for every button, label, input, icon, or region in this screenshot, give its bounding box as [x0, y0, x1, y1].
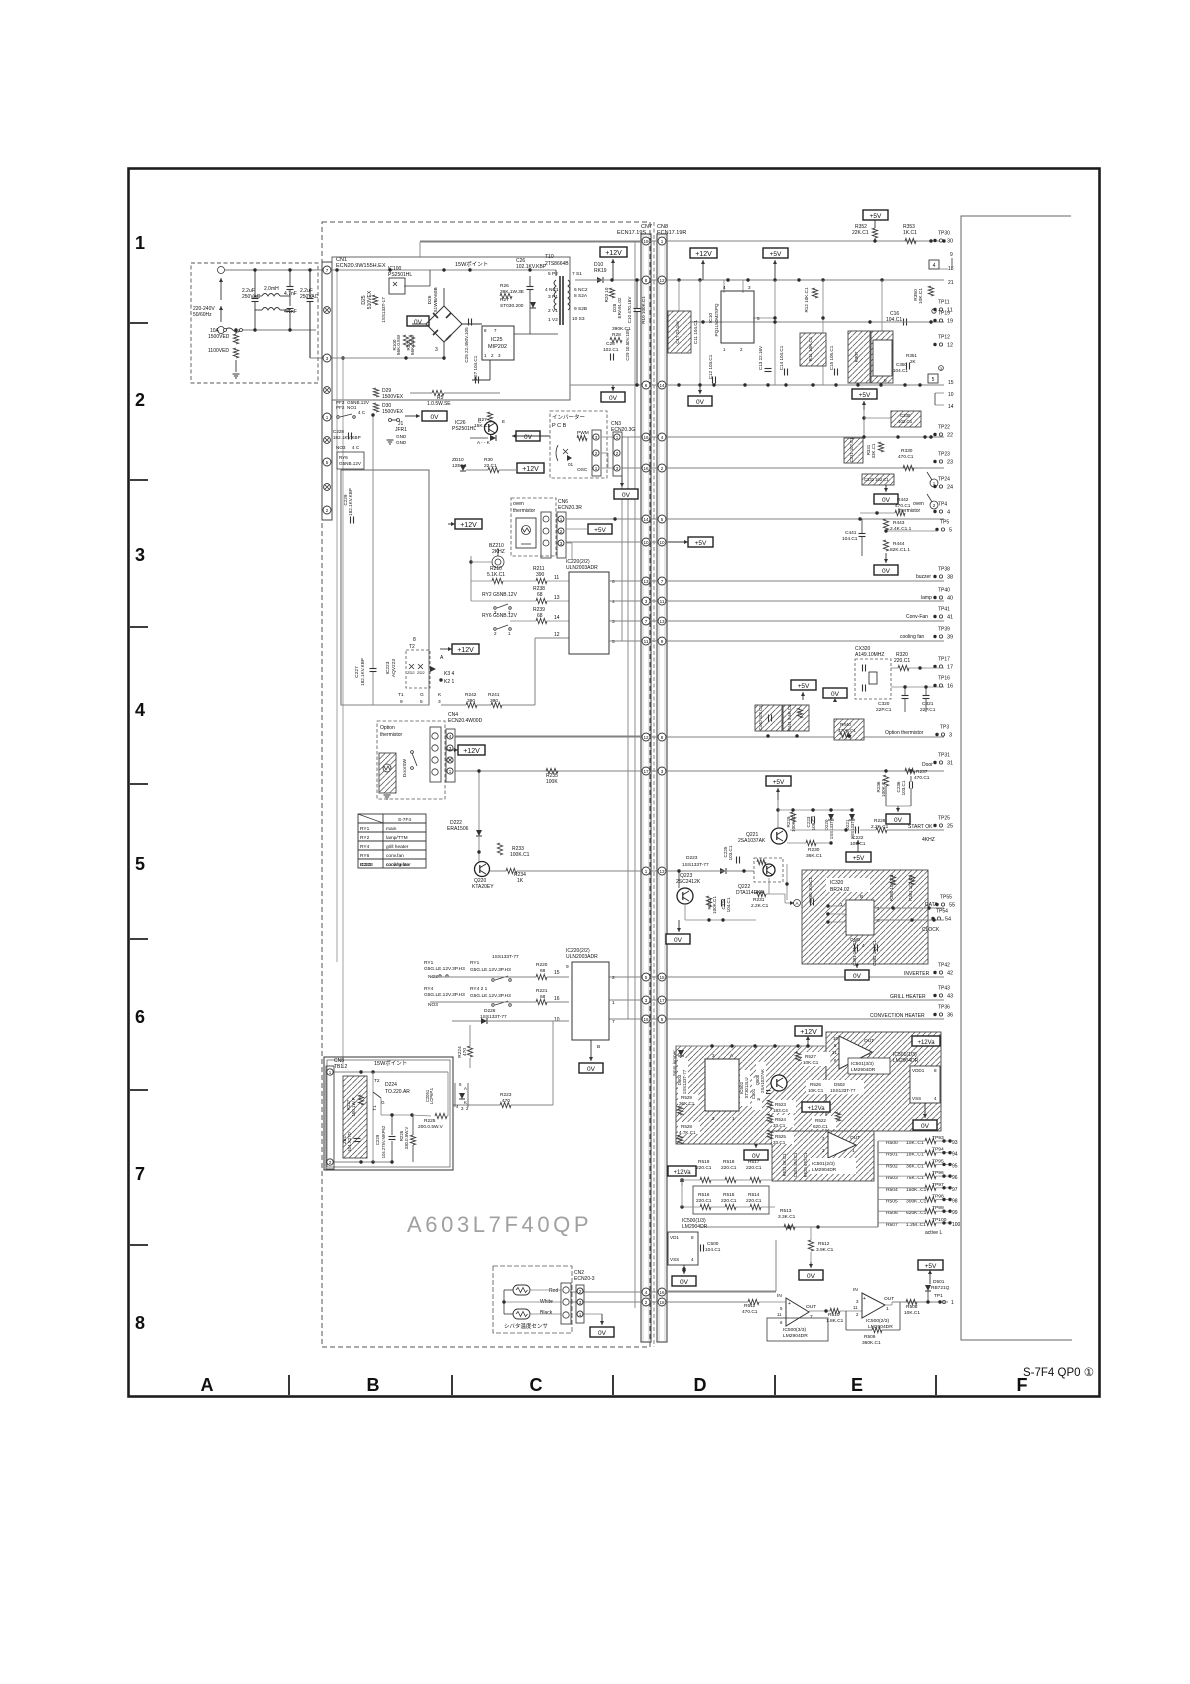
CN1 pin 7: [323, 266, 331, 274]
svg-text:7: 7: [494, 328, 497, 333]
resistor inverter pwm: [577, 435, 587, 440]
svg-text:7 S1: 7 S1: [572, 271, 582, 277]
svg-text:Conv-Fan: Conv-Fan: [906, 614, 928, 620]
wire +12Va vertical r519: [681, 1178, 683, 1207]
wire cn6 pin1 bus: [566, 518, 641, 520]
svg-text:+5V: +5V: [870, 213, 882, 220]
svg-text:3: 3: [856, 1299, 859, 1304]
svg-text:R512: R512: [818, 1241, 830, 1247]
svg-text:17: 17: [947, 665, 953, 671]
resistor R527 10K.C1: [802, 1052, 830, 1066]
svg-text:470.C1: 470.C1: [898, 454, 914, 460]
wire bus y=621: [609, 620, 944, 622]
resistor R522 620.C1: [812, 1116, 836, 1129]
svg-text:+12Va: +12Va: [673, 1170, 691, 1176]
svg-text:TP95: TP95: [932, 1158, 944, 1164]
svg-text:R520 470.C1: R520 470.C1: [803, 1152, 808, 1177]
CN7 pin 4: [642, 1288, 650, 1296]
svg-text:B: B: [367, 1375, 380, 1395]
svg-text:14: 14: [554, 615, 560, 621]
svg-text:R237: R237: [916, 769, 928, 775]
svg-text:R517: R517: [748, 1159, 760, 1165]
svg-text:0V: 0V: [414, 319, 423, 326]
svg-text:LM2904DR: LM2904DR: [812, 1167, 837, 1173]
svg-text:LM2904DR: LM2904DR: [851, 1067, 876, 1073]
svg-text:470: 470: [462, 1048, 468, 1056]
svg-text:TP31: TP31: [938, 753, 950, 759]
main PCB dashed outline: [322, 222, 650, 1347]
svg-text:R513: R513: [780, 1208, 792, 1214]
svg-text:Black: Black: [540, 1310, 553, 1316]
resistor R441 hatched 5.6K.C1: [783, 705, 809, 731]
svg-text:R440: R440: [840, 722, 851, 727]
wire r509 feedback: [845, 1311, 847, 1330]
svg-text:C: C: [530, 1375, 543, 1395]
wire option sense vertical: [478, 771, 480, 830]
wire d226 row: [452, 1020, 481, 1022]
svg-text:100K: 100K: [546, 779, 558, 785]
svg-text:2TS8664B: 2TS8664B: [545, 261, 569, 267]
CN1 pin nc1: [324, 307, 331, 314]
svg-text:11: 11: [853, 1305, 858, 1310]
svg-text:220.C1: 220.C1: [746, 1198, 762, 1204]
svg-text:6: 6: [645, 383, 648, 388]
analog hatched block left: [676, 1046, 826, 1144]
CN8 pin 13: [658, 867, 666, 875]
svg-text:R225: R225: [424, 1118, 436, 1124]
svg-text:10: 10: [659, 540, 665, 545]
svg-text:IC501(2/3): IC501(2/3): [812, 1161, 835, 1167]
svg-text:R10 100K.C1: R10 100K.C1: [641, 296, 646, 324]
wire row 322: [668, 321, 944, 323]
svg-text:2: 2: [612, 975, 615, 981]
svg-text:0V: 0V: [894, 817, 903, 824]
CN1 pin 5: [323, 458, 331, 466]
svg-text:Option thermistor: Option thermistor: [885, 730, 924, 736]
boxed label +12V cn6: [455, 519, 482, 529]
svg-text:4: 4: [933, 263, 936, 269]
svg-text:1500VEX: 1500VEX: [382, 409, 404, 415]
svg-text:oven: oven: [913, 501, 924, 507]
svg-text:1: 1: [951, 1300, 954, 1306]
svg-text:C320: C320: [878, 701, 890, 707]
CN7 pin 3: [642, 996, 650, 1004]
boxed label +12V smps: [600, 247, 627, 257]
wire q221 collector: [777, 800, 779, 827]
svg-text:1: 1: [732, 1116, 735, 1121]
svg-text:+5V: +5V: [773, 779, 785, 786]
wire row771 dots: [884, 769, 887, 772]
IC500 VDD VSS box: [668, 1232, 698, 1265]
CN8 pin 11: [658, 597, 666, 605]
svg-text:5 P2: 5 P2: [548, 271, 558, 277]
svg-text:1: 1: [560, 517, 563, 522]
svg-text:R523: R523: [775, 1102, 786, 1107]
svg-text:K3 4: K3 4: [444, 671, 455, 677]
svg-text:OUT: OUT: [850, 1135, 860, 1141]
wire ry2 row: [471, 600, 536, 602]
boxed label +5V q221: [766, 776, 791, 786]
svg-text:1500VEX: 1500VEX: [382, 394, 404, 400]
svg-text:R27: R27: [500, 297, 509, 303]
CN8 pin 1: [658, 237, 666, 245]
wire analog top rail: [676, 1045, 826, 1047]
svg-text:15: 15: [659, 975, 665, 980]
wire sensor black: [530, 1313, 561, 1315]
svg-text:+5V: +5V: [798, 683, 810, 690]
svg-text:lamp/TTM: lamp/TTM: [386, 835, 408, 841]
wire cn3 pin3: [601, 467, 613, 469]
svg-text:ZD2: ZD2: [407, 670, 415, 675]
svg-text:IC500(3/3): IC500(3/3): [783, 1327, 806, 1333]
svg-text:A: A: [201, 1375, 214, 1395]
svg-text:98: 98: [952, 1199, 958, 1205]
svg-text:C15 105.C1: C15 105.C1: [829, 345, 834, 370]
svg-text:oven: oven: [513, 501, 524, 507]
svg-text:RY1: RY1: [360, 826, 370, 832]
CN7 pin 1: [642, 867, 650, 875]
opamp IC501(3/3) triangle: [839, 1036, 872, 1069]
svg-text:5: 5: [877, 906, 880, 911]
svg-text:2: 2: [712, 1116, 715, 1121]
svg-text:4: 4: [612, 599, 615, 605]
svg-text:13: 13: [643, 579, 649, 584]
svg-text:2: 2: [579, 1289, 582, 1294]
svg-text:1: 1: [852, 1148, 855, 1154]
wire bus y=601: [609, 600, 944, 602]
svg-text:TP40: TP40: [938, 588, 950, 594]
svg-text:R514: R514: [748, 1192, 760, 1198]
svg-text:G: G: [420, 692, 424, 698]
CN7 pin 8: [642, 276, 650, 284]
wire data row: [874, 907, 944, 909]
svg-text:21: 21: [832, 1050, 837, 1055]
svg-text:100K.C1: 100K.C1: [881, 779, 886, 797]
CN1 pin nc2: [324, 387, 331, 394]
relay function table: [358, 814, 426, 868]
svg-text:5: 5: [661, 1017, 664, 1022]
svg-text:1: 1: [484, 353, 487, 358]
boxed label 0V ic220 lower: [579, 1063, 603, 1073]
svg-text:1: 1: [326, 415, 329, 420]
CN7 pin 14: [642, 515, 650, 523]
wire sensor commons: [504, 1289, 513, 1291]
svg-text:1: 1: [612, 1000, 615, 1006]
svg-text:OUT: OUT: [806, 1304, 816, 1310]
connector CN4 pins: [446, 729, 455, 782]
svg-text:1: 1: [508, 631, 511, 636]
IC25 MIP202: [482, 326, 514, 360]
svg-text:7: 7: [810, 1314, 813, 1320]
svg-text:R11 10K.C1: R11 10K.C1: [808, 336, 813, 361]
svg-text:TP43: TP43: [938, 986, 950, 992]
film capacitor hatched Z81: [343, 1076, 367, 1158]
wire ic320 vdd feed: [786, 864, 788, 900]
CN1 pin 1: [323, 413, 331, 421]
svg-text:31: 31: [947, 761, 953, 767]
wire q220 base bus: [490, 870, 506, 872]
wire C227 vertical: [372, 415, 374, 668]
svg-text:24: 24: [947, 485, 953, 491]
svg-text:TP96: TP96: [932, 1170, 944, 1176]
svg-text:39K.1W.3E: 39K.1W.3E: [500, 289, 524, 295]
svg-text:15: 15: [948, 380, 954, 386]
svg-text:1SS133T-77: 1SS133T-77: [682, 1069, 687, 1094]
svg-text:G5G.LE.12V.3P.H3: G5G.LE.12V.3P.H3: [470, 993, 511, 999]
svg-text:A603L7F40QP: A603L7F40QP: [407, 1212, 592, 1237]
IC500(3/3) label: [767, 1318, 828, 1341]
svg-text:1500VED: 1500VED: [208, 334, 230, 340]
svg-text:C12 103.C1: C12 103.C1: [708, 354, 713, 379]
svg-text:82K.C1.1: 82K.C1.1: [890, 547, 910, 553]
transistor Q221 2SA1037AK: [771, 828, 787, 844]
wire mains live rail: [332, 269, 556, 271]
svg-text:9: 9: [884, 378, 887, 383]
CN8 pin 15: [658, 973, 666, 981]
svg-text:470.C1: 470.C1: [914, 775, 930, 781]
svg-text:2: 2: [491, 353, 494, 358]
svg-text:R509: R509: [864, 1334, 876, 1340]
svg-text:4.7K.C1: 4.7K.C1: [679, 1130, 696, 1135]
svg-text:active L: active L: [925, 1230, 942, 1236]
wire row 385 dots: [677, 383, 680, 386]
svg-text:ZD2: ZD2: [417, 670, 425, 675]
svg-text:470: 470: [502, 1098, 510, 1104]
IC320 inner box: [846, 900, 874, 935]
svg-text:IC501(3/3): IC501(3/3): [851, 1061, 874, 1067]
wire ic25 bottom: [489, 360, 491, 380]
svg-text:1SS133T-77: 1SS133T-77: [480, 1014, 507, 1020]
svg-text:B: B: [860, 894, 863, 900]
svg-text:RY1: RY1: [424, 960, 434, 966]
svg-text:R30: R30: [484, 457, 493, 463]
svg-text:LM2904DR: LM2904DR: [783, 1333, 808, 1339]
svg-text:+12V: +12V: [522, 466, 539, 473]
svg-text:R521 1K.C1: R521 1K.C1: [782, 1153, 787, 1176]
svg-text:3: 3: [498, 353, 501, 358]
svg-text:7: 7: [612, 1019, 615, 1025]
svg-text:R528: R528: [681, 1124, 692, 1129]
svg-text:0V: 0V: [882, 497, 891, 504]
connector CN8 strip body: [657, 234, 667, 1342]
boxed label +5V cn6: [588, 524, 612, 534]
svg-text:1 V2: 1 V2: [548, 317, 558, 323]
svg-text:68: 68: [540, 968, 546, 974]
svg-text:4: 4: [135, 700, 145, 720]
CN8 pin 2: [658, 464, 666, 472]
svg-text:38: 38: [947, 575, 953, 581]
svg-text:T2: T2: [374, 1078, 380, 1084]
svg-text:2: 2: [616, 451, 619, 456]
svg-text:182.1KV.KBP: 182.1KV.KBP: [360, 658, 365, 686]
svg-text:5.1K.C1: 5.1K.C1: [487, 572, 505, 578]
wire opto link: [404, 285, 430, 287]
svg-text:182.1KV.KBP: 182.1KV.KBP: [333, 435, 361, 440]
boxed label +12V reg: [690, 248, 717, 258]
svg-text:3: 3: [435, 347, 438, 353]
hatched block RY3 pair: [848, 331, 870, 383]
svg-text:RY4: RY4: [360, 844, 370, 850]
boxed label +5V comp: [918, 1260, 943, 1270]
svg-text:PF2: PF2: [336, 405, 345, 410]
svg-text:16: 16: [947, 684, 953, 690]
CN8 pin 5: [658, 1015, 666, 1023]
svg-text:P C B: P C B: [552, 423, 567, 429]
svg-text:R518: R518: [723, 1159, 735, 1165]
svg-text:GND: GND: [396, 434, 407, 439]
diode smps snubber: [530, 302, 536, 308]
wire tp5 stub: [886, 530, 938, 532]
svg-text:+5V: +5V: [594, 527, 606, 534]
resistor R523 183.C4: [772, 1100, 796, 1113]
svg-text:RY6 G5NB.12V: RY6 G5NB.12V: [482, 613, 518, 619]
svg-text:3: 3: [612, 619, 615, 625]
svg-text:25: 25: [947, 824, 953, 830]
svg-text:TP24: TP24: [938, 477, 950, 483]
wire comp out row: [892, 1301, 948, 1303]
wire tb1 left vertical: [372, 1072, 374, 1162]
connector CN4 strip: [430, 727, 441, 782]
boxed label 0V r512: [799, 1270, 823, 1280]
svg-text:10: 10: [948, 392, 954, 398]
svg-text:4: 4: [862, 943, 865, 948]
svg-text:18: 18: [659, 1300, 665, 1305]
svg-text:10 S3: 10 S3: [572, 316, 585, 322]
svg-text:1SS133T-77: 1SS133T-77: [830, 1088, 856, 1093]
svg-text:1: 1: [329, 1070, 332, 1075]
wire bus y=1000: [609, 999, 944, 1001]
svg-text:3: 3: [135, 545, 145, 565]
svg-text:ULN2003ADR: ULN2003ADR: [566, 565, 598, 571]
svg-text:JFR1: JFR1: [395, 427, 407, 433]
svg-text:lamp: lamp: [921, 595, 932, 601]
svg-text:14: 14: [659, 383, 665, 388]
svg-text:TP3: TP3: [940, 725, 949, 731]
svg-text:R220: R220: [536, 962, 548, 968]
svg-text:15Wポイント: 15Wポイント: [374, 1060, 407, 1067]
svg-text:12: 12: [659, 278, 665, 283]
svg-text:+5V: +5V: [925, 1263, 937, 1270]
svg-text:R442: R442: [897, 497, 909, 503]
svg-text:R441 5.6K.C1: R441 5.6K.C1: [787, 704, 792, 731]
wire bus y=771: [455, 770, 944, 772]
svg-text:K2 1: K2 1: [444, 679, 455, 685]
svg-text:8 S2A: 8 S2A: [574, 293, 588, 299]
svg-text:8: 8: [691, 1235, 694, 1240]
svg-text:TP42: TP42: [938, 963, 950, 969]
wire top feeder to CN7: [420, 241, 641, 243]
svg-text:0V: 0V: [680, 1279, 689, 1286]
svg-text:103.C1: 103.C1: [728, 845, 733, 860]
svg-text:10K.C1: 10K.C1: [918, 288, 924, 304]
svg-text:PQ1L50M2SPQ: PQ1L50M2SPQ: [714, 303, 719, 336]
svg-text:30: 30: [947, 239, 953, 245]
svg-text:インバーター: インバーター: [552, 413, 585, 421]
wire cn6 pin3 down: [566, 542, 572, 544]
svg-text:VDD1: VDD1: [912, 1068, 925, 1073]
svg-text:1: 1: [595, 466, 598, 471]
section box relay left: [341, 470, 429, 705]
svg-text:68: 68: [537, 613, 543, 619]
svg-text:D26: D26: [427, 295, 433, 304]
svg-text:1: 1: [661, 239, 664, 244]
svg-text:+: +: [788, 1301, 791, 1307]
boxed label 0V smps opto: [407, 316, 429, 326]
svg-text:C1? 22.16V: C1? 22.16V: [675, 320, 680, 343]
svg-text:2: 2: [329, 1160, 332, 1165]
AC input dashed box: [191, 263, 318, 383]
svg-text:A: A: [464, 1086, 467, 1091]
svg-text:15K.C1: 15K.C1: [474, 423, 490, 429]
svg-text:AQV223: AQV223: [391, 659, 397, 677]
svg-text:1SS133T-77: 1SS133T-77: [682, 862, 709, 868]
wire q221 pullups: [778, 809, 852, 811]
svg-text:8: 8: [413, 637, 416, 643]
svg-text:55: 55: [949, 903, 955, 909]
wire +5v down to c330: [863, 410, 865, 437]
CN7 pin 10: [642, 538, 650, 546]
svg-text:C10 470.16V: C10 470.16V: [627, 296, 632, 324]
sensor dashed box: [493, 1266, 572, 1333]
svg-text:T1: T1: [398, 692, 404, 698]
cap inside Z81: [354, 1138, 361, 1140]
svg-text:390: 390: [536, 572, 545, 578]
oven thermistor dashed box: [511, 498, 556, 556]
svg-text:10K.C1: 10K.C1: [803, 1060, 819, 1065]
svg-text:R223: R223: [500, 1092, 512, 1098]
svg-text:14: 14: [643, 517, 649, 522]
IC320 label: [826, 878, 870, 892]
svg-text:39: 39: [947, 635, 953, 641]
svg-text:IC25: IC25: [491, 337, 503, 343]
svg-text:PWM: PWM: [577, 430, 589, 436]
boxed label 0V cn3: [614, 489, 638, 499]
svg-text:10: 10: [833, 1036, 838, 1041]
svg-text:36K.C1: 36K.C1: [806, 853, 822, 859]
svg-text:cooling fan: cooling fan: [900, 634, 924, 640]
CN7 pin 16: [642, 464, 650, 472]
wire bus y=737: [455, 736, 944, 738]
svg-text:C25 22.450V.105: C25 22.450V.105: [464, 327, 469, 363]
wire ssr drive to IC220: [441, 704, 466, 706]
svg-text:7: 7: [326, 268, 329, 273]
svg-text:NO3: NO3: [336, 445, 346, 450]
svg-text:5: 5: [326, 460, 329, 465]
svg-text:22K.C1: 22K.C1: [852, 230, 869, 236]
thermistor element lower: [513, 1309, 530, 1319]
svg-text:3: 3: [560, 541, 563, 546]
svg-text:R351: R351: [906, 353, 917, 358]
svg-text:6: 6: [612, 579, 615, 585]
svg-text:3: 3: [326, 356, 329, 361]
svg-text:+12V: +12V: [463, 748, 480, 755]
svg-text:TP99: TP99: [932, 1205, 944, 1211]
svg-text:G: G: [381, 1100, 385, 1105]
ground AC filter: [233, 373, 240, 375]
wire bus y=641: [609, 640, 944, 642]
svg-text:grill heater: grill heater: [386, 844, 409, 850]
svg-text:10: 10: [554, 1017, 560, 1023]
wire bus y=542: [566, 541, 688, 543]
boxed label +12V analog: [795, 1026, 822, 1036]
wire sensor white: [504, 1301, 561, 1303]
svg-text:Door: Door: [922, 762, 933, 768]
wire bus y=437: [622, 436, 944, 438]
wire comp2 out: [885, 1304, 892, 1306]
wire +12V rail row1: [677, 278, 680, 281]
svg-text:PS2501HL: PS2501HL: [388, 272, 412, 278]
svg-text:A: A: [440, 655, 444, 661]
